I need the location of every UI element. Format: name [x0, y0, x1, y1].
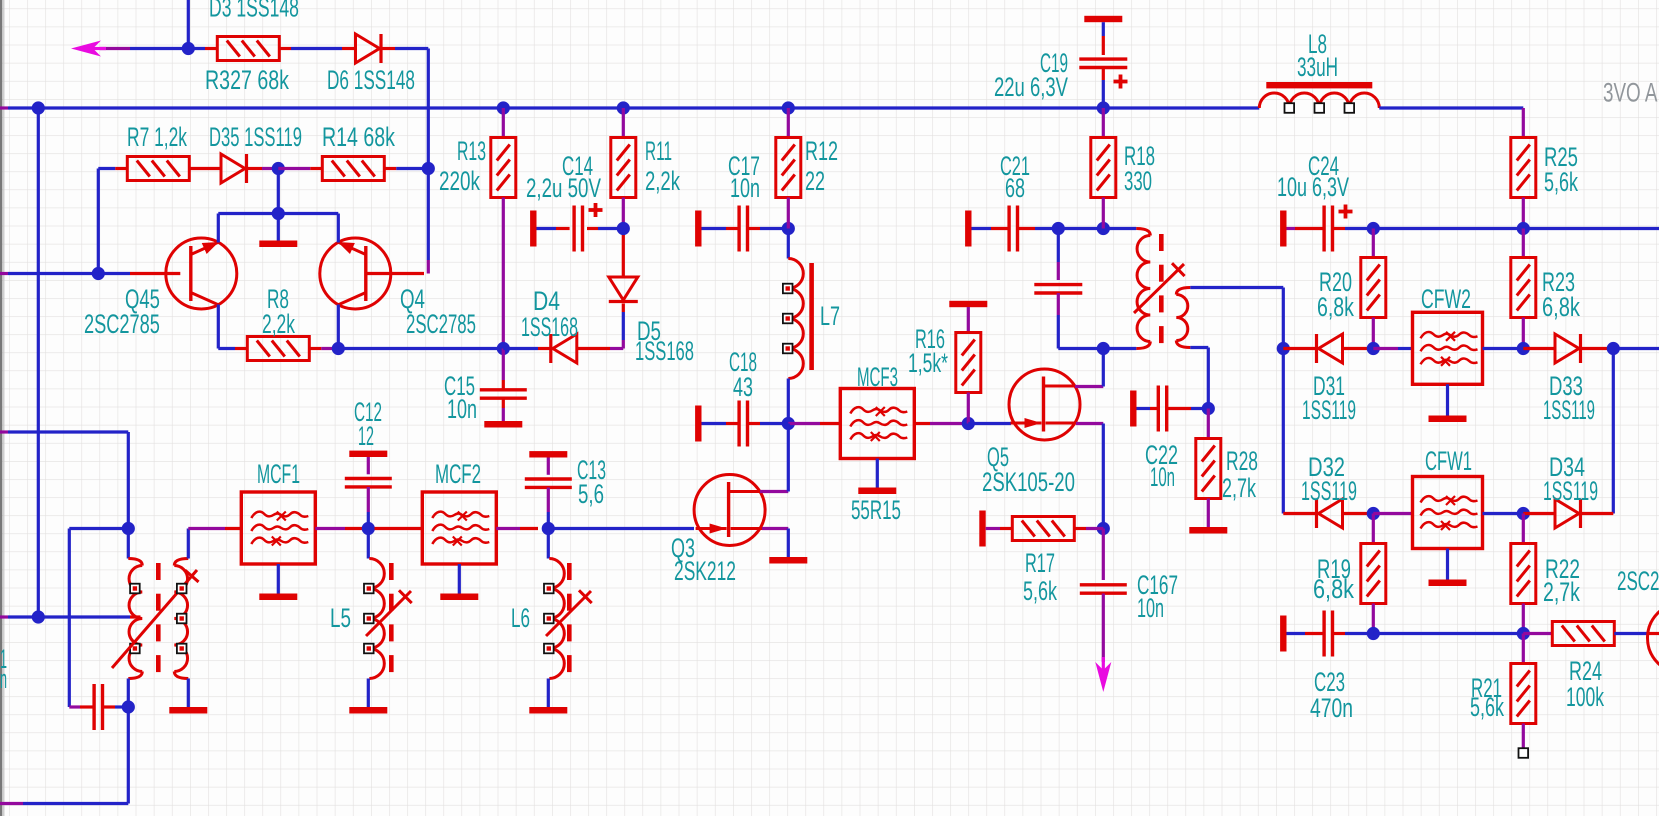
wire: [1102, 108, 1105, 138]
wire: [278, 167, 310, 170]
pin square: [1315, 103, 1325, 113]
wire: [277, 214, 280, 241]
transistor Q4: [320, 238, 391, 309]
node: [497, 101, 510, 114]
pin square: [177, 584, 187, 594]
node: [422, 162, 435, 175]
transistor Q6 (edge): [1648, 603, 1659, 674]
diode D32: [1319, 499, 1343, 528]
resistor R18: [1091, 138, 1116, 198]
wire: [217, 214, 220, 243]
wire: [1343, 347, 1374, 350]
transistor Q45: [166, 238, 237, 309]
pin square: [177, 614, 187, 624]
wire: [1522, 318, 1525, 349]
wire: [547, 488, 550, 513]
wire: [502, 198, 505, 349]
wire: [1612, 349, 1615, 514]
filter MCF1: [241, 492, 315, 564]
node: [782, 222, 795, 235]
transformer T2 secondary: [174, 559, 188, 566]
svg-text:12: 12: [358, 420, 374, 451]
capacitor C21: [1007, 206, 1010, 252]
wire: [127, 529, 130, 559]
wire: [622, 198, 625, 229]
wire: [338, 347, 503, 350]
wire: [502, 399, 505, 409]
wire: [1523, 512, 1555, 515]
wire: [427, 49, 430, 261]
wire: [0, 615, 8, 618]
pin square (open): [1519, 748, 1529, 758]
capacitor C24: [1322, 206, 1325, 252]
node: [782, 417, 795, 430]
svg-text:2,2k: 2,2k: [645, 166, 680, 196]
wire: [98, 272, 130, 275]
capacitor (unlabelled): [92, 684, 95, 730]
wire: [68, 529, 71, 708]
wire: [1283, 512, 1316, 515]
diode D33: [1555, 334, 1579, 363]
resistor R7: [127, 157, 189, 181]
wire: [1287, 227, 1296, 230]
terminal: [949, 301, 987, 307]
wire: [1074, 527, 1086, 530]
wire: [1102, 68, 1105, 81]
diode D31: [1319, 334, 1343, 363]
wire: [1522, 514, 1525, 544]
svg-text:5,6: 5,6: [578, 479, 604, 509]
resistor R11: [611, 138, 636, 198]
wire: [702, 422, 727, 425]
svg-text:1SS119: 1SS119: [1543, 394, 1595, 425]
svg-text:10u 6,3V: 10u 6,3V: [1277, 171, 1350, 202]
node: [1367, 627, 1380, 640]
wire: [277, 169, 280, 214]
node: [1367, 222, 1380, 235]
svg-text:3VO AF: 3VO AF: [1603, 77, 1659, 107]
svg-text:68: 68: [1005, 172, 1025, 203]
diode D34: [1555, 499, 1579, 528]
terminal: [979, 511, 985, 547]
wire: [547, 529, 550, 559]
wire: [69, 527, 128, 530]
resistor R20: [1361, 258, 1386, 318]
svg-text:2,2u 50V: 2,2u 50V: [526, 173, 601, 203]
wire: [787, 108, 790, 138]
wire: [788, 422, 820, 425]
svg-text:R7 1,2k: R7 1,2k: [127, 121, 187, 152]
diode D35: [221, 154, 245, 183]
node: [1517, 222, 1530, 235]
wire: [1333, 632, 1346, 635]
wire: [187, 679, 190, 708]
wire: [367, 457, 370, 474]
wire: [986, 527, 1000, 530]
terminal: [529, 451, 567, 457]
wire: [458, 564, 461, 594]
node: [617, 101, 630, 114]
svg-text:470n: 470n: [1310, 693, 1353, 723]
svg-text:CFW1: CFW1: [1425, 446, 1472, 476]
svg-text:MCF3: MCF3: [857, 361, 898, 392]
wire: [1283, 347, 1316, 350]
wire: [748, 422, 761, 425]
pin square: [130, 584, 140, 594]
resistor R23: [1511, 258, 1536, 318]
svg-text:2,7k: 2,7k: [1543, 577, 1580, 607]
wire: [384, 167, 396, 170]
wire: [367, 487, 370, 512]
wire: [1167, 407, 1191, 410]
pin square: [1285, 103, 1295, 113]
wire: [189, 167, 220, 170]
inductor L6: [549, 559, 564, 679]
resistor R21: [1511, 664, 1536, 724]
node: [32, 610, 45, 623]
node: [1097, 101, 1110, 114]
svg-text:6,8k: 6,8k: [1313, 575, 1355, 605]
svg-text:22u 6,3V: 22u 6,3V: [994, 71, 1068, 101]
wire: [876, 459, 879, 488]
terminal: [1280, 616, 1286, 652]
svg-text:10n: 10n: [1150, 461, 1175, 492]
wire: [702, 227, 727, 230]
transformer T1 primary: [1136, 229, 1150, 236]
transformer T2 adjust arrow: [112, 570, 197, 668]
svg-text:L7: L7: [820, 300, 840, 331]
component plus mark: [1114, 80, 1128, 84]
component plus mark: [1339, 210, 1353, 214]
wire: [187, 529, 190, 559]
wire: [1102, 198, 1105, 229]
wire: [1614, 632, 1647, 635]
filter CFW1: [1413, 477, 1483, 549]
wire: [309, 347, 321, 350]
wire: [38, 615, 130, 618]
svg-text:10n: 10n: [1137, 593, 1164, 623]
transistor Q5: [1009, 369, 1080, 440]
pin square: [783, 344, 793, 354]
terminal: [695, 406, 701, 442]
wire: [587, 227, 598, 230]
diode D5: [553, 334, 577, 363]
wire: [1076, 422, 1103, 425]
wire: [1333, 227, 1346, 230]
svg-text:R11: R11: [645, 135, 672, 166]
pin square: [364, 584, 374, 594]
svg-text:220k: 220k: [439, 166, 480, 196]
wire: [1522, 634, 1525, 664]
pin square: [544, 644, 554, 654]
wire: [1522, 229, 1525, 258]
diode D4: [609, 277, 638, 300]
wire: [277, 564, 280, 594]
svg-text:2,7k: 2,7k: [1222, 472, 1256, 503]
wire: [367, 679, 370, 708]
ground: [259, 241, 297, 248]
filter MCF3: [840, 389, 914, 459]
svg-text:L6: L6: [511, 603, 530, 633]
pin square: [177, 644, 187, 654]
wire: [1523, 347, 1555, 350]
node: [542, 522, 555, 535]
resistor R13: [491, 138, 516, 198]
wire: [279, 47, 291, 50]
wire: [1522, 198, 1525, 229]
terminal: [965, 211, 971, 247]
svg-text:2SK105-20: 2SK105-20: [982, 467, 1075, 497]
component plus mark: [589, 208, 603, 212]
capacitor C13: [525, 477, 572, 480]
svg-text:1SS168: 1SS168: [635, 336, 694, 366]
ground: [769, 557, 807, 564]
wire: [1373, 512, 1412, 515]
node: [617, 222, 630, 235]
svg-text:2,2k: 2,2k: [262, 308, 295, 339]
svg-text:MCF1: MCF1: [257, 459, 300, 490]
wire: [1373, 347, 1398, 350]
node: [1367, 342, 1380, 355]
resistor R28: [1196, 439, 1221, 499]
transformer T2 primary: [128, 559, 142, 566]
wire: [1058, 227, 1103, 230]
ground: [259, 594, 297, 601]
pin square: [364, 614, 374, 624]
svg-text:5,6k: 5,6k: [1470, 691, 1504, 722]
wire: [1207, 409, 1210, 439]
wire: [503, 347, 538, 350]
wire: [1102, 594, 1105, 629]
wire: [1075, 385, 1103, 388]
left page border: [0, 0, 2, 816]
wire: [187, 0, 190, 49]
transformer T1 secondary: [1176, 288, 1190, 295]
svg-text:2SK212: 2SK212: [674, 555, 736, 586]
node: [122, 522, 135, 535]
wire: [1343, 512, 1374, 515]
wire: [1282, 288, 1285, 514]
wire: [315, 527, 345, 530]
ground: [1189, 527, 1227, 534]
resistor R12: [776, 138, 801, 198]
terminal: [1280, 211, 1286, 247]
wire: [622, 340, 625, 349]
wire: [577, 347, 610, 350]
ground: [484, 421, 522, 428]
wire: [1582, 512, 1613, 515]
svg-text:R13: R13: [457, 136, 486, 167]
wire: [1523, 632, 1552, 635]
wire: [127, 679, 130, 708]
wire: [1446, 384, 1449, 415]
svg-text:R12: R12: [805, 135, 838, 166]
net arrow (off-page, magenta): [71, 41, 101, 57]
net arrow (down, magenta): [1095, 662, 1111, 692]
wire: [1522, 604, 1525, 634]
wire: [366, 272, 424, 275]
svg-text:D35 1SS119: D35 1SS119: [209, 122, 302, 152]
wire: [914, 422, 930, 425]
wire: [748, 227, 761, 230]
svg-text:10n: 10n: [730, 172, 760, 203]
wire: [1137, 407, 1151, 410]
wire: [1103, 227, 1136, 230]
pin square: [544, 584, 554, 594]
wire: [548, 527, 694, 530]
svg-text:1SS119: 1SS119: [1302, 394, 1356, 425]
svg-text:100k: 100k: [1566, 681, 1604, 712]
capacitor C19: [1079, 57, 1127, 60]
resistor R14: [322, 157, 384, 181]
wire: [1582, 347, 1613, 350]
diode D6: [356, 34, 380, 63]
wire: [537, 227, 557, 230]
wire: [1613, 347, 1659, 350]
svg-text:55R15: 55R15: [851, 495, 901, 525]
svg-text:5,6k: 5,6k: [1544, 166, 1578, 197]
wire: [1287, 632, 1306, 635]
inductor L5 adjust arrow: [366, 591, 411, 636]
terminal: [530, 211, 536, 247]
terminal: [349, 451, 387, 457]
wire: [502, 108, 505, 138]
resistor R17: [1012, 517, 1074, 541]
node: [782, 101, 795, 114]
svg-text:2SC2785: 2SC2785: [406, 309, 476, 339]
svg-text:L5: L5: [330, 603, 351, 633]
node: [1517, 627, 1530, 640]
ground: [349, 707, 387, 714]
capacitor C18: [737, 401, 740, 447]
inductor L6 core: [567, 563, 572, 580]
wire: [496, 527, 520, 530]
ground: [440, 594, 478, 601]
node: [1607, 342, 1620, 355]
resistor R327: [217, 37, 279, 61]
transistor Q3: [694, 475, 765, 546]
node: [497, 342, 510, 355]
inductor L5: [369, 559, 384, 679]
pin square: [783, 284, 793, 294]
svg-text:43: 43: [733, 371, 753, 402]
node: [1097, 522, 1110, 535]
wire 3V bus: [0, 106, 8, 109]
wire: [968, 422, 1011, 425]
wire: [247, 167, 263, 170]
node: [1097, 342, 1110, 355]
node: [32, 101, 45, 114]
svg-text:22: 22: [805, 165, 825, 196]
node: [1277, 342, 1290, 355]
wire: [103, 705, 115, 708]
capacitor (unlabelled): [1034, 283, 1082, 286]
filter MCF2: [422, 492, 496, 564]
capacitor C23: [1322, 611, 1325, 657]
capacitor C167: [1080, 583, 1127, 586]
svg-text:1SS168: 1SS168: [521, 312, 578, 342]
svg-text:5,6k: 5,6k: [1023, 575, 1057, 606]
ground: [1429, 416, 1467, 423]
wire: [622, 230, 625, 277]
node: [332, 342, 345, 355]
wire: [97, 169, 100, 274]
wire: [1102, 22, 1105, 36]
transformer T2 core: [156, 563, 161, 580]
ground: [1429, 580, 1467, 587]
wire: [1190, 286, 1283, 289]
resistor R25: [1511, 138, 1536, 198]
wire: [1372, 514, 1375, 544]
ground: [858, 488, 896, 495]
inductor L5 core: [389, 563, 394, 580]
wire: [1373, 632, 1523, 635]
svg-text:D6 1SS148: D6 1SS148: [327, 65, 415, 95]
filter CFW2: [1413, 312, 1483, 384]
svg-text:1,5k*: 1,5k*: [908, 347, 948, 378]
wire: [100, 47, 130, 50]
wire: [0, 272, 8, 275]
node: [92, 267, 105, 280]
node: [1202, 402, 1215, 415]
node: [1097, 222, 1110, 235]
node: [122, 700, 135, 713]
svg-text:R17: R17: [1025, 548, 1055, 578]
svg-text:CFW2: CFW2: [1421, 283, 1471, 314]
wire: [1372, 318, 1375, 349]
wire: [502, 349, 505, 381]
wire: [1057, 229, 1060, 263]
wire: [787, 198, 790, 229]
node: [272, 207, 285, 220]
pin square: [1345, 103, 1355, 113]
svg-text:6,8k: 6,8k: [1317, 292, 1354, 322]
svg-text:1SS119: 1SS119: [1301, 476, 1357, 506]
node: [1052, 222, 1065, 235]
wire: [547, 458, 550, 475]
capacitor C12: [345, 477, 392, 480]
svg-text:330: 330: [1124, 166, 1152, 196]
pin square: [783, 314, 793, 324]
wire: [337, 305, 340, 349]
wire: [37, 108, 40, 617]
ground: [169, 707, 207, 714]
pin square: [130, 644, 140, 654]
terminal: [1084, 16, 1122, 22]
transformer T1 core: [1159, 234, 1164, 251]
inductor L7 core: [809, 263, 814, 370]
capacitor C14: [572, 206, 575, 252]
node: [962, 417, 975, 430]
wire: [1446, 549, 1449, 580]
wire: [217, 305, 220, 349]
terminal: [1130, 391, 1136, 427]
wire: [1522, 724, 1525, 750]
wire: [0, 430, 8, 433]
wire: [972, 227, 992, 230]
wire: [1483, 347, 1524, 350]
node: [272, 162, 285, 175]
svg-text:D3 1SS148: D3 1SS148: [209, 0, 299, 22]
wire: [69, 705, 80, 708]
svg-text:MCF2: MCF2: [435, 459, 481, 489]
wire: [1190, 346, 1208, 349]
wire: [762, 527, 788, 530]
capacitor C15: [480, 388, 527, 391]
node: [1367, 507, 1380, 520]
wire: [1372, 604, 1375, 634]
node D3 junction: [182, 42, 195, 55]
